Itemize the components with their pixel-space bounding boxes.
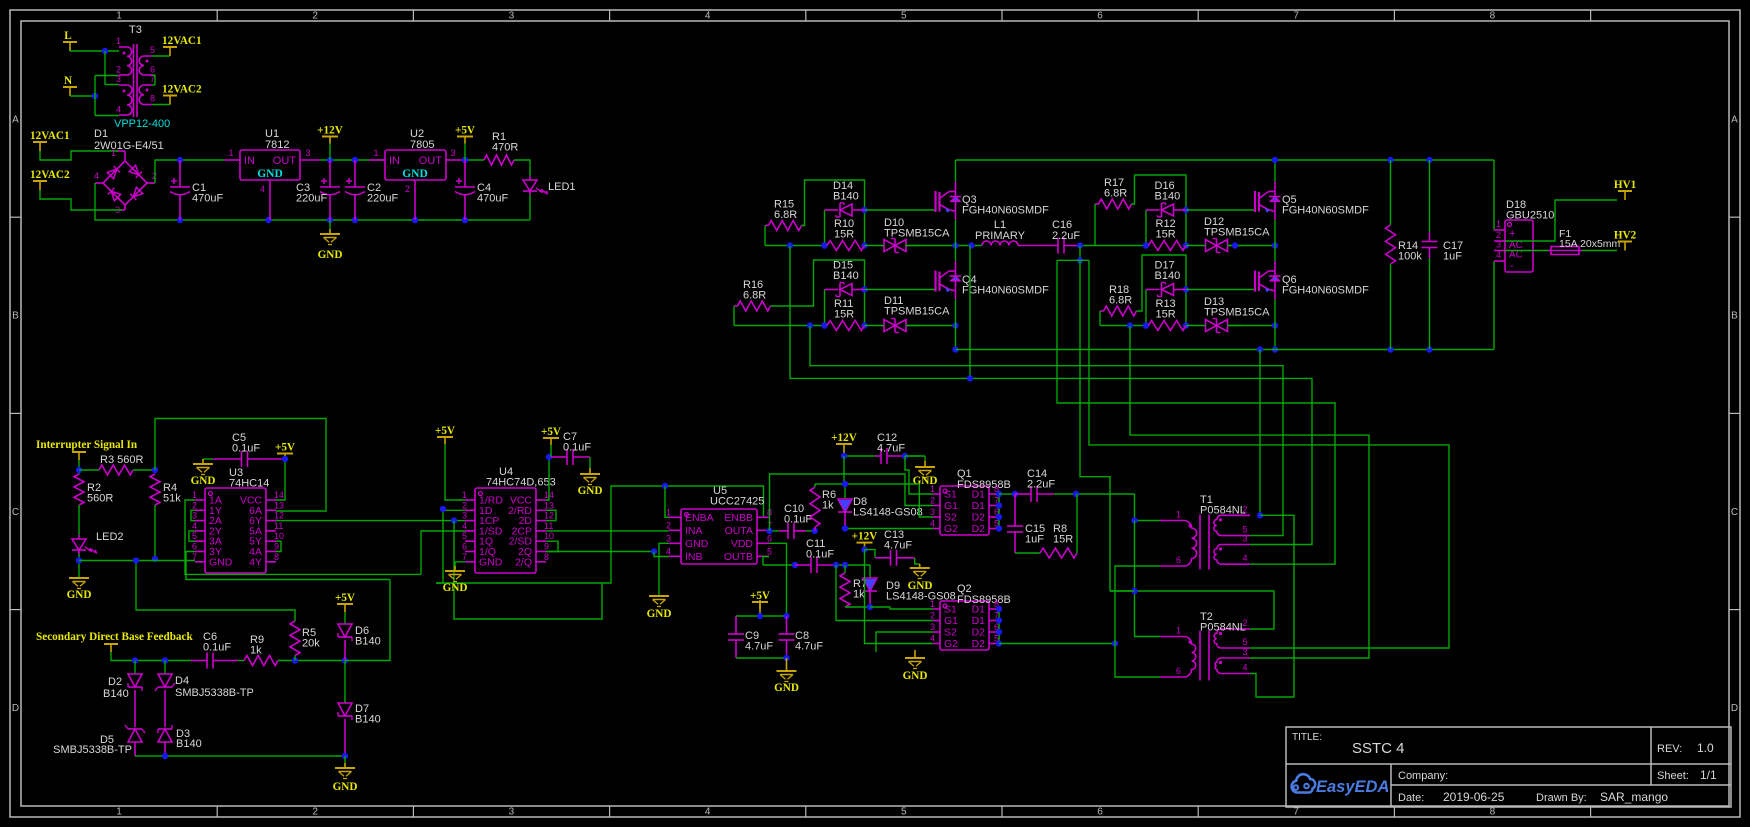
svg-text:3: 3 (450, 148, 455, 158)
wire R16 left drop (734, 305, 738, 307)
svg-text:2: 2 (192, 500, 197, 510)
wire OUTA to Q1 G1 (770, 474, 934, 531)
svg-text:GND: GND (647, 608, 672, 620)
svg-text:1uF: 1uF (1443, 251, 1462, 263)
svg-text:ENBA: ENBA (685, 512, 714, 524)
resistor R5 (290, 621, 300, 656)
wire T1 pin2 to bottom rail (1259, 350, 1261, 516)
IGBT Q6 (1254, 271, 1256, 292)
svg-text:GND: GND (774, 682, 799, 694)
svg-text:1: 1 (116, 807, 122, 818)
svg-text:4.7uF: 4.7uF (884, 540, 912, 552)
svg-text:1uF: 1uF (1025, 534, 1044, 546)
wire R9 to R5 D6 (278, 660, 345, 662)
svg-text:EasyEDA: EasyEDA (1316, 778, 1389, 796)
svg-text:8: 8 (1490, 11, 1496, 22)
svg-text:S2: S2 (944, 627, 957, 639)
svg-text:ENBB: ENBB (724, 512, 753, 524)
svg-text:15R: 15R (1156, 229, 1176, 241)
wire U4 1D loop (436, 510, 465, 583)
svg-text:Date:: Date: (1398, 792, 1424, 804)
wire feedback bottom rail (135, 755, 345, 757)
svg-text:LED2: LED2 (96, 531, 124, 543)
svg-text:3: 3 (192, 511, 197, 521)
wire U3 1A to lower bus (185, 500, 421, 574)
svg-text:2: 2 (116, 65, 121, 75)
svg-text:6: 6 (1097, 807, 1103, 818)
svg-text:5: 5 (901, 11, 907, 22)
svg-text:B: B (12, 311, 19, 322)
resistor R17 (1099, 199, 1132, 209)
svg-text:VDD: VDD (731, 538, 754, 550)
wire Q2 drains join (998, 609, 1000, 644)
svg-text:0.1uF: 0.1uF (203, 642, 231, 654)
svg-text:4: 4 (462, 521, 467, 531)
svg-text:4.7uF: 4.7uF (745, 641, 773, 653)
wire T2 pin3 drive (1130, 326, 1369, 659)
svg-text:1: 1 (462, 490, 467, 500)
svg-text:6.8R: 6.8R (774, 209, 797, 221)
svg-text:B140: B140 (355, 714, 381, 726)
svg-text:1k: 1k (822, 500, 834, 512)
capacitor C10 (787, 523, 789, 539)
ground under C8 (786, 658, 788, 671)
resistor R2 (74, 474, 84, 505)
wire gnd row under U3 (79, 560, 195, 562)
svg-text:IN: IN (244, 155, 255, 167)
svg-text:GND: GND (257, 168, 283, 180)
svg-text:7812: 7812 (265, 139, 289, 151)
svg-text:5: 5 (1243, 637, 1248, 647)
svg-text:N: N (64, 75, 72, 87)
net flag 12VAC1 left (39, 142, 41, 151)
wire R5 top loop (136, 561, 295, 622)
capacitor C6 (206, 653, 208, 669)
resistor R1 (484, 155, 514, 165)
wire F1 to HV2 (1582, 250, 1617, 252)
wire U2 out (462, 159, 484, 161)
svg-text:7: 7 (1293, 807, 1299, 818)
svg-text:12VAC1: 12VAC1 (162, 35, 202, 47)
svg-text:GND: GND (67, 589, 92, 601)
wire Q1 drains join (998, 494, 1000, 529)
diode D14 (824, 210, 826, 246)
svg-text:D2: D2 (972, 638, 986, 650)
wire Q4 emitter (955, 300, 957, 350)
wire gate Q5 (1186, 209, 1255, 211)
IC U3 74HC14 (205, 488, 266, 573)
resistor R12 (1149, 241, 1187, 251)
svg-text:0.1uF: 0.1uF (784, 514, 812, 526)
svg-text:1: 1 (930, 484, 935, 494)
resistor R8 (1015, 552, 1040, 554)
svg-text:B140: B140 (833, 270, 859, 282)
svg-text:D2: D2 (972, 512, 986, 524)
capacitor C14 (1030, 486, 1032, 502)
svg-text:0.1uF: 0.1uF (563, 442, 591, 454)
capacitor C13 (890, 550, 892, 566)
svg-text:2019-06-25: 2019-06-25 (1443, 790, 1505, 804)
svg-text:+: + (1509, 228, 1515, 240)
ground right of C12 (905, 455, 925, 457)
svg-text:4: 4 (1243, 663, 1248, 673)
svg-text:4Y: 4Y (249, 556, 262, 568)
wire U4 2RD-2D staple (546, 510, 556, 520)
svg-text:4: 4 (930, 519, 935, 529)
svg-text:5: 5 (462, 531, 467, 541)
svg-text:+5V: +5V (435, 425, 455, 437)
svg-text:LS4148-GS08: LS4148-GS08 (853, 507, 923, 519)
wire C9 C8 bottom (736, 657, 787, 659)
wire U3 3Y to lower bus (186, 552, 390, 580)
resistor R4 (150, 474, 160, 505)
svg-text:B140: B140 (176, 738, 202, 750)
wire +5V C9 C8 top (736, 615, 787, 617)
svg-text:S1: S1 (944, 604, 957, 616)
transformer T1 P0584NL (1160, 520, 1162, 522)
wire interrupter to R2 (78, 460, 80, 474)
svg-text:A: A (1731, 115, 1738, 126)
wire T3 pin6-7 link (152, 74, 155, 76)
bridge rectifier D1 (118, 150, 125, 152)
svg-text:74HC74D,653: 74HC74D,653 (486, 477, 556, 489)
svg-text:15R: 15R (834, 229, 854, 241)
wire C11 to Q2 G1 (836, 565, 933, 621)
svg-text:B140: B140 (833, 191, 859, 203)
wire C11 right (836, 564, 870, 566)
net flag 12VAC2 left (39, 181, 41, 190)
wire midrail D12 right (1228, 245, 1276, 247)
wire T1 pin5 drive (810, 326, 1283, 536)
regulator U1 (240, 150, 300, 180)
capacitor C12 (880, 448, 882, 464)
wire Q2 S2 (876, 632, 933, 652)
wire enable loop (436, 486, 764, 583)
TVS diode D13 (1216, 319, 1218, 333)
diode D17 (1145, 290, 1147, 326)
svg-text:L: L (64, 30, 71, 42)
svg-text:GND: GND (402, 168, 428, 180)
svg-text:+12V: +12V (852, 531, 878, 543)
wire R4 to row (154, 505, 156, 559)
svg-text:4: 4 (705, 807, 711, 818)
svg-text:-: - (1510, 260, 1514, 272)
ground left of C5 (203, 458, 213, 460)
TVS diode D12 (1216, 239, 1218, 253)
wire R8 up (1076, 494, 1078, 553)
power flag +5V at C7 (550, 445, 552, 457)
capacitor C3 (329, 160, 331, 187)
svg-text:GND: GND (209, 556, 233, 568)
wire R15 loop (802, 180, 865, 246)
svg-text:4: 4 (666, 546, 671, 556)
svg-text:Sheet:: Sheet: (1657, 770, 1689, 782)
svg-text:3: 3 (930, 507, 935, 517)
net flag HV2 (1624, 242, 1626, 251)
svg-text:220uF: 220uF (367, 193, 398, 205)
svg-text:2.2uF: 2.2uF (1052, 230, 1080, 242)
svg-text:Company:: Company: (1398, 770, 1448, 782)
wire lowrail D13 right (1228, 325, 1276, 327)
svg-text:5: 5 (150, 45, 155, 55)
wire feedback to U3 area (345, 580, 390, 661)
svg-text:7: 7 (462, 552, 467, 562)
svg-text:Drawn By:: Drawn By: (1536, 792, 1587, 804)
IGBT Q4 (934, 271, 936, 292)
wire gate Q4 (865, 289, 936, 291)
svg-text:D: D (1731, 703, 1738, 714)
svg-text:Secondary Direct Base Feedback: Secondary Direct Base Feedback (36, 631, 193, 643)
wire L to T3 (70, 50, 119, 52)
wire T2 pin1 feed (1135, 521, 1161, 637)
diode D9 (869, 565, 871, 578)
svg-text:B140: B140 (355, 636, 381, 648)
svg-text:INB: INB (685, 551, 703, 563)
svg-text:7: 7 (1293, 11, 1299, 22)
svg-text:8: 8 (150, 94, 155, 104)
net flag N (69, 87, 71, 96)
wire 6Y branch down (454, 521, 602, 619)
svg-text:11: 11 (544, 521, 553, 531)
resistor R3 (79, 469, 99, 471)
power flag +12V at C12 (843, 444, 845, 456)
wire U4 2SD-2Q staple (546, 541, 558, 551)
svg-text:D1: D1 (972, 615, 986, 627)
svg-text:GBU2510: GBU2510 (1506, 210, 1554, 222)
transformer T2 P0584NL (1162, 637, 1196, 678)
svg-text:D1: D1 (972, 489, 986, 501)
svg-text:GND: GND (443, 582, 468, 594)
resistor R18 (1104, 306, 1137, 316)
svg-text:OUT: OUT (419, 155, 443, 167)
svg-text:6: 6 (150, 65, 155, 75)
fuse F1 (1505, 250, 1548, 252)
wire R7 D9 bottom (845, 606, 870, 608)
svg-text:SSTC 4: SSTC 4 (1352, 740, 1405, 757)
svg-text:TPSMB15CA: TPSMB15CA (884, 228, 950, 240)
svg-text:1: 1 (1176, 510, 1181, 520)
diode D16 (1145, 210, 1147, 246)
wire U5 VDD to +5V (769, 543, 787, 616)
mosfet Q1 FDS8958B (940, 486, 989, 535)
wire +5V to U3 VCC (276, 459, 285, 500)
capacitor C7 (566, 449, 568, 465)
svg-text:S1: S1 (944, 489, 957, 501)
diode D3 (158, 729, 172, 742)
net flag 12VAC1 top (152, 55, 170, 57)
wire lowrail D11 right (906, 325, 956, 327)
svg-text:6: 6 (767, 533, 772, 543)
wire U4 GND pin (455, 562, 465, 566)
svg-text:12VAC2: 12VAC2 (30, 169, 70, 181)
svg-text:1: 1 (192, 490, 197, 500)
wire U4 2Q to U5 INB (546, 551, 654, 553)
svg-text:11: 11 (274, 521, 283, 531)
wire bridge out to U1 (147, 182, 155, 184)
resistor R16 (738, 301, 771, 311)
svg-text:HV2: HV2 (1614, 230, 1637, 242)
svg-text:12VAC2: 12VAC2 (162, 84, 202, 96)
ground under Q2 (914, 650, 916, 658)
svg-text:GND: GND (333, 781, 358, 793)
inductor L1 PRIMARY (982, 241, 1018, 246)
svg-text:1: 1 (373, 148, 378, 158)
svg-text:1: 1 (1176, 626, 1181, 636)
svg-text:D2: D2 (972, 627, 986, 639)
svg-text:2: 2 (312, 807, 318, 818)
svg-text:6.8R: 6.8R (1104, 188, 1127, 200)
svg-text:GND: GND (191, 475, 216, 487)
wire Q5 emitter (1274, 220, 1276, 246)
svg-text:TPSMB15CA: TPSMB15CA (884, 306, 950, 318)
svg-text:TPSMB15CA: TPSMB15CA (1204, 227, 1270, 239)
svg-text:INA: INA (685, 525, 703, 537)
svg-text:4.7uF: 4.7uF (795, 641, 823, 653)
svg-text:+5V: +5V (541, 426, 561, 438)
svg-text:D2: D2 (972, 523, 986, 535)
wire R15 left drop (765, 225, 769, 227)
svg-text:HV1: HV1 (1614, 179, 1637, 191)
wire T1 pin6 feed (1115, 566, 1160, 644)
wire Q5 collector (1274, 160, 1276, 182)
svg-text:G2: G2 (944, 638, 958, 650)
net flag L (69, 42, 71, 51)
svg-text:GND: GND (578, 485, 603, 497)
svg-text:51k: 51k (163, 493, 181, 505)
svg-text:REV:: REV: (1657, 743, 1682, 755)
power flag +5V psu (464, 144, 466, 161)
svg-text:FGH40N60SMDF: FGH40N60SMDF (1282, 205, 1369, 217)
wire Q4 collector (955, 246, 957, 262)
TVS diode D11 (894, 319, 896, 333)
svg-text:A: A (12, 115, 19, 126)
svg-text:D4: D4 (175, 675, 189, 687)
wire gate Q6 (1186, 289, 1255, 291)
capacitor C8 (779, 633, 795, 635)
IC U5 UCC27425 (681, 509, 757, 564)
wire switch node branch (969, 246, 971, 379)
wire U3 1Y-2A (191, 510, 195, 520)
svg-text:D: D (12, 703, 19, 714)
svg-text:6.8R: 6.8R (743, 290, 766, 302)
svg-text:10: 10 (544, 531, 554, 541)
svg-text:2.2uF: 2.2uF (1027, 479, 1055, 491)
wire D6 to D7 (344, 661, 346, 704)
svg-text:6: 6 (1176, 555, 1181, 565)
wire T1 pin3 drive (790, 246, 1312, 545)
svg-text:1k: 1k (250, 645, 262, 657)
svg-text:5: 5 (901, 807, 907, 818)
svg-text:15R: 15R (1053, 534, 1073, 546)
resistor R10 (827, 241, 865, 251)
svg-text:15R: 15R (834, 309, 854, 321)
svg-text:5: 5 (192, 531, 197, 541)
svg-text:3: 3 (666, 533, 671, 543)
svg-text:+12V: +12V (317, 125, 343, 137)
wire U5 GND pin (659, 543, 669, 596)
power flag +5V at U4 (444, 444, 446, 459)
resistor R9 (238, 660, 244, 662)
ground right of C13 (915, 558, 920, 564)
wire top rail (956, 159, 1495, 161)
wire LED2 to gnd (78, 554, 80, 578)
wire U4 1SD loop (421, 531, 465, 574)
svg-text:LED1: LED1 (548, 181, 576, 193)
svg-text:PRIMARY: PRIMARY (975, 230, 1026, 242)
svg-text:G1: G1 (944, 615, 958, 627)
svg-text:470uF: 470uF (192, 193, 223, 205)
svg-text:560R: 560R (87, 493, 113, 505)
wire N pins 2-4 (94, 76, 96, 116)
svg-text:3: 3 (1496, 240, 1501, 250)
wire bottom rail (956, 349, 1495, 351)
svg-text:3: 3 (462, 511, 467, 521)
node midrail left (765, 245, 827, 247)
svg-text:1: 1 (228, 148, 233, 158)
wire R2 to LED2 (78, 505, 80, 535)
svg-text:UCC27425: UCC27425 (710, 496, 764, 508)
svg-text:2: 2 (1243, 618, 1248, 628)
wire R1 to LED1 (514, 160, 530, 176)
svg-text:2: 2 (666, 520, 671, 530)
svg-text:4: 4 (192, 521, 197, 531)
wire feedback to C6 (111, 652, 191, 661)
capacitor C5 (241, 451, 243, 467)
wire Q1 out to C14 (999, 493, 1015, 495)
wire 6A feedback loop (155, 419, 326, 512)
svg-text:3: 3 (116, 74, 121, 84)
svg-text:0.1uF: 0.1uF (806, 549, 834, 561)
IGBT Q5 (1254, 191, 1256, 212)
power flag +5V at C5 (284, 454, 286, 460)
svg-text:4: 4 (930, 634, 935, 644)
svg-text:13: 13 (544, 500, 554, 510)
svg-text:6: 6 (1097, 11, 1103, 22)
ground feedback (344, 756, 346, 763)
LED LED2 (78, 535, 80, 539)
wire Q2 out to T1 T2 pin6 (999, 643, 1115, 645)
svg-text:12VAC1: 12VAC1 (30, 130, 70, 142)
wire D9 to Q2 S1 (870, 607, 933, 609)
diode D5 (128, 729, 142, 742)
wire OUTB down (763, 557, 769, 566)
wire U1 out (320, 159, 385, 161)
wire D8 to Q1 G2 (845, 528, 933, 530)
svg-text:4: 4 (705, 11, 711, 22)
wire Q3 collector (955, 160, 957, 182)
svg-text:6: 6 (192, 542, 197, 552)
svg-text:13: 13 (274, 500, 284, 510)
wire 12VAC2 to bridge (40, 190, 122, 210)
svg-text:C: C (1731, 507, 1738, 518)
diode D4 (164, 661, 166, 675)
diode D15 (824, 290, 826, 326)
svg-text:+5V: +5V (275, 442, 295, 454)
transformer T3 (119, 46, 127, 48)
svg-text:15A 20x5mm: 15A 20x5mm (1559, 238, 1621, 250)
svg-text:15R: 15R (1156, 309, 1176, 321)
capacitor C11 (763, 564, 795, 566)
svg-text:470uF: 470uF (477, 193, 508, 205)
svg-text:4: 4 (260, 184, 265, 194)
svg-text:8: 8 (544, 552, 549, 562)
wire T1 pin2 stub (1224, 514, 1250, 516)
svg-text:2: 2 (312, 11, 318, 22)
net flag HV1 (1624, 191, 1626, 200)
wire T2 pin6 feed (1115, 644, 1160, 678)
capacitor C2 (354, 160, 356, 187)
wire A2 node down (1080, 260, 1110, 591)
